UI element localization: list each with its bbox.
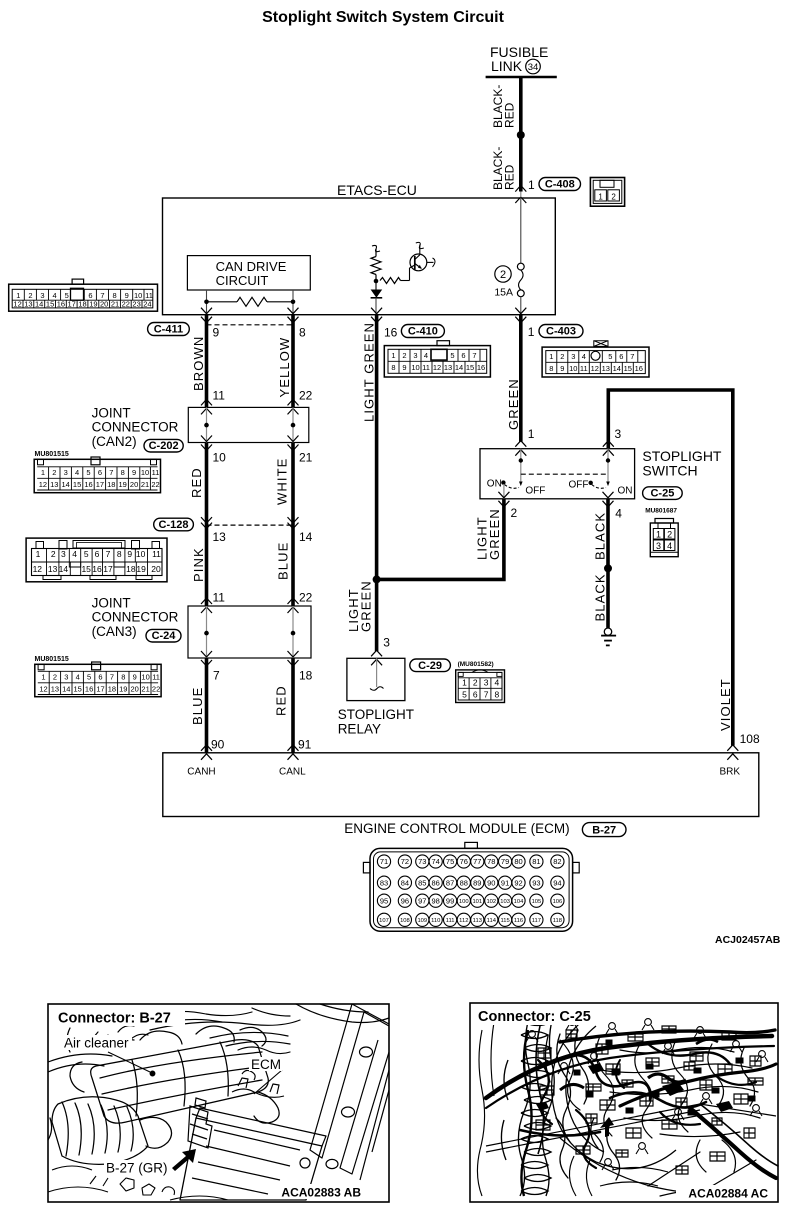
- svg-text:14: 14: [299, 530, 313, 544]
- svg-text:74: 74: [432, 857, 440, 866]
- svg-text:11: 11: [213, 591, 226, 605]
- resistor CAN termination: [207, 297, 294, 306]
- svg-text:111: 111: [446, 918, 455, 924]
- svg-text:4: 4: [75, 468, 79, 477]
- connector label C-29: [410, 659, 451, 672]
- figure number ACA02884 AC: [676, 1185, 775, 1201]
- svg-text:5: 5: [87, 673, 91, 682]
- svg-text:13: 13: [444, 363, 452, 372]
- switch left contact (ON-OFF): [487, 479, 546, 497]
- svg-text:97: 97: [418, 896, 426, 905]
- svg-text:C-410: C-410: [408, 326, 438, 338]
- svg-text:17: 17: [68, 300, 76, 309]
- connector icon C-29 MU801582 (8-pin): [456, 670, 505, 703]
- svg-text:13: 13: [213, 530, 227, 544]
- svg-text:18: 18: [126, 564, 136, 574]
- svg-text:16: 16: [92, 564, 102, 574]
- svg-text:CANH: CANH: [187, 767, 215, 778]
- svg-text:7: 7: [213, 669, 220, 683]
- svg-text:98: 98: [432, 896, 440, 905]
- svg-text:2: 2: [667, 529, 672, 539]
- svg-text:3: 3: [571, 352, 575, 361]
- photo label B-27 (GR): [104, 1160, 168, 1176]
- dashed connector line C-411: [207, 324, 294, 326]
- svg-text:6: 6: [88, 291, 92, 300]
- photo B-27: ECM leader line: [254, 1070, 282, 1094]
- pin diagram C-411 (24-pin): [9, 279, 158, 311]
- connector label C-128: [154, 518, 194, 531]
- wire BLACK from switch pin 4 to ground: [606, 499, 610, 628]
- svg-text:CANL: CANL: [279, 767, 306, 778]
- svg-text:1: 1: [549, 352, 553, 361]
- stoplight switch box: [480, 449, 635, 499]
- connector crossing C-128 pin 13: [201, 517, 226, 544]
- svg-text:Connector: C-25: Connector: C-25: [478, 1009, 591, 1025]
- relay internal wire: [370, 658, 384, 690]
- svg-text:8: 8: [121, 468, 125, 477]
- svg-text:75: 75: [446, 857, 454, 866]
- svg-text:2: 2: [52, 468, 56, 477]
- photo C-25: braided loom column: [501, 1012, 554, 1196]
- svg-text:8: 8: [549, 364, 553, 373]
- svg-text:3: 3: [484, 678, 489, 688]
- photo B-27: air cleaner leader line: [108, 1052, 155, 1076]
- svg-text:103: 103: [500, 899, 510, 905]
- svg-text:6: 6: [98, 673, 102, 682]
- svg-text:1: 1: [16, 291, 20, 300]
- svg-text:8: 8: [495, 690, 500, 700]
- svg-text:BLUE: BLUE: [190, 687, 205, 725]
- switch internal dot right: [606, 458, 610, 462]
- connector crossing C-410 pin 16: [371, 308, 398, 340]
- photo C-25: instrument panel edge: [486, 1104, 776, 1194]
- svg-text:11: 11: [145, 291, 153, 300]
- connector label C-408: [539, 178, 581, 191]
- svg-text:ACJ02457AB: ACJ02457AB: [715, 934, 781, 946]
- svg-text:17: 17: [96, 480, 104, 489]
- stoplight relay label: [338, 707, 414, 737]
- switch internal dot left: [519, 458, 523, 462]
- svg-text:WHITE: WHITE: [275, 458, 290, 505]
- stoplight switch label: [642, 448, 722, 479]
- photo B-27: ECM bracket and bolts: [232, 1070, 284, 1097]
- svg-text:15: 15: [46, 300, 54, 309]
- wire label LIGHT GREEN (switch leg): [475, 508, 503, 560]
- photo C-25: clips and studs: [526, 1019, 768, 1170]
- svg-text:1: 1: [41, 468, 45, 477]
- svg-text:8: 8: [117, 549, 122, 559]
- photo B-27: right rail with holes: [310, 1004, 389, 1180]
- svg-text:C-403: C-403: [546, 326, 576, 338]
- svg-text:BROWN: BROWN: [191, 336, 206, 391]
- svg-text:77: 77: [473, 857, 481, 866]
- svg-text:20: 20: [130, 480, 138, 489]
- svg-text:6: 6: [619, 352, 623, 361]
- svg-text:9: 9: [127, 549, 132, 559]
- svg-text:ON: ON: [487, 479, 502, 490]
- svg-text:1: 1: [528, 178, 535, 192]
- photo C-25: black connector masses: [536, 1063, 733, 1112]
- svg-text:89: 89: [473, 878, 481, 887]
- svg-text:B-27: B-27: [592, 824, 616, 836]
- joint connector CAN3 label: [92, 596, 179, 640]
- svg-text:10: 10: [134, 291, 142, 300]
- svg-text:6: 6: [98, 468, 102, 477]
- relay entry crossing pin 3: [371, 636, 390, 666]
- svg-text:15: 15: [466, 363, 474, 372]
- svg-text:22: 22: [122, 300, 130, 309]
- svg-text:14: 14: [62, 480, 70, 489]
- svg-text:71: 71: [380, 857, 388, 866]
- svg-text:15: 15: [624, 364, 632, 373]
- connector crossing C-128 pin 14: [288, 517, 313, 544]
- photo C-25: top harness bundle thick: [486, 1030, 776, 1136]
- svg-text:8: 8: [121, 673, 125, 682]
- svg-text:7: 7: [484, 690, 489, 700]
- svg-text:72: 72: [401, 857, 409, 866]
- svg-text:13: 13: [48, 564, 58, 574]
- svg-text:7: 7: [110, 673, 114, 682]
- switch entry crossing pin 1: [515, 427, 535, 456]
- svg-text:73: 73: [418, 857, 426, 866]
- svg-text:CONNECTOR: CONNECTOR: [92, 420, 179, 435]
- svg-text:3: 3: [40, 291, 44, 300]
- wire BLUE CAN3 to ECM pin 90: [205, 658, 209, 753]
- svg-text:GREEN: GREEN: [506, 378, 521, 430]
- svg-text:14: 14: [35, 300, 43, 309]
- svg-text:ECM: ECM: [251, 1057, 281, 1072]
- CAN2 internal wire left: [206, 407, 208, 442]
- wire inside ECU left pin8: [292, 290, 294, 315]
- svg-text:5: 5: [608, 352, 612, 361]
- svg-text:C-29: C-29: [418, 660, 442, 672]
- svg-text:7: 7: [109, 468, 113, 477]
- svg-text:14: 14: [455, 363, 463, 372]
- svg-text:2: 2: [560, 352, 564, 361]
- photo frame Connector B-27: [48, 1004, 389, 1202]
- resistor (pull-up) inside ECU: [371, 245, 381, 282]
- pin diagram C-24 MU801515 (22-pin): [35, 662, 161, 697]
- svg-text:B-27 (GR): B-27 (GR): [106, 1161, 168, 1176]
- connector label C-403: [539, 325, 583, 338]
- svg-text:5: 5: [84, 549, 89, 559]
- svg-text:7: 7: [100, 291, 104, 300]
- svg-text:87: 87: [446, 878, 454, 887]
- svg-text:4: 4: [667, 541, 672, 551]
- svg-text:Stoplight Switch System Circui: Stoplight Switch System Circuit: [262, 9, 504, 26]
- transistor Q inside ECU: [410, 242, 436, 270]
- connector label C-410: [401, 325, 444, 338]
- svg-text:18: 18: [108, 685, 116, 694]
- svg-text:8: 8: [113, 291, 117, 300]
- svg-text:GREEN: GREEN: [487, 508, 502, 560]
- svg-text:22: 22: [152, 685, 160, 694]
- CAN2 exit crossing pin 10: [201, 436, 226, 465]
- photo C-25: steering column circle: [552, 1018, 676, 1169]
- svg-text:4: 4: [76, 673, 80, 682]
- svg-text:78: 78: [487, 857, 495, 866]
- photo B-27: cowl and fender lines: [48, 1004, 389, 1072]
- svg-text:2: 2: [53, 673, 57, 682]
- svg-text:4: 4: [582, 352, 586, 361]
- svg-text:C-24: C-24: [152, 630, 177, 642]
- svg-text:102: 102: [486, 899, 496, 905]
- photo C-25: heavy harness squiggles: [538, 1044, 756, 1168]
- svg-text:86: 86: [432, 878, 440, 887]
- svg-text:13: 13: [24, 300, 32, 309]
- wire BLACK-RED vertical from fusible link: [519, 77, 523, 192]
- svg-text:10: 10: [141, 673, 149, 682]
- connector crossing C-411 pin 9: [201, 308, 220, 340]
- svg-text:ON: ON: [618, 486, 633, 497]
- switch internal wire right: [607, 449, 609, 484]
- wire LIGHT GREEN pin16 down: [375, 314, 379, 651]
- svg-text:14: 14: [62, 685, 70, 694]
- photo C-25: lower middle wires: [477, 1022, 668, 1196]
- connector label B-27: [582, 823, 626, 837]
- svg-text:109: 109: [417, 918, 427, 924]
- svg-text:4: 4: [53, 291, 57, 300]
- CAN drive circuit box: [187, 256, 310, 290]
- switch internal wire left: [520, 449, 522, 484]
- svg-text:11: 11: [152, 549, 161, 559]
- svg-text:112: 112: [459, 918, 468, 924]
- photo C-25: lower right heavy bundle: [648, 1104, 778, 1196]
- joint connector CAN2 box: [188, 407, 308, 442]
- svg-text:Air cleaner: Air cleaner: [64, 1036, 129, 1051]
- svg-text:23: 23: [132, 300, 140, 309]
- svg-text:82: 82: [553, 857, 561, 866]
- stoplight relay box: [347, 658, 405, 700]
- svg-text:116: 116: [514, 918, 523, 924]
- resistor base (horizontal): [380, 268, 410, 284]
- svg-text:8: 8: [391, 363, 395, 372]
- photo title Connector: C-25: [471, 1004, 601, 1025]
- svg-text:3: 3: [383, 636, 390, 650]
- CAN2 internal dot right: [291, 423, 296, 428]
- svg-text:11: 11: [580, 364, 588, 373]
- CAN2 entry crossing pin 11: [201, 389, 225, 415]
- svg-text:94: 94: [553, 878, 561, 887]
- CAN3 internal dot right: [291, 631, 296, 636]
- fuse 2 15A inside ECU: [494, 198, 524, 315]
- svg-text:4: 4: [615, 507, 622, 521]
- svg-text:3: 3: [615, 427, 622, 441]
- svg-text:7: 7: [472, 351, 476, 360]
- diode inside ECU: [371, 281, 383, 315]
- svg-text:17: 17: [96, 685, 104, 694]
- svg-text:5: 5: [86, 468, 90, 477]
- svg-text:5: 5: [65, 291, 69, 300]
- svg-text:9: 9: [132, 468, 136, 477]
- svg-text:91: 91: [298, 738, 312, 752]
- svg-text:118: 118: [553, 918, 562, 924]
- svg-text:C-128: C-128: [159, 519, 189, 531]
- svg-text:17: 17: [103, 564, 113, 574]
- photo B-27: corrugated intake duct: [48, 1097, 172, 1165]
- svg-text:96: 96: [401, 896, 409, 905]
- svg-text:3: 3: [413, 351, 417, 360]
- wire inside ECU left pin9: [206, 290, 208, 315]
- svg-text:SWITCH: SWITCH: [642, 463, 697, 479]
- photo B-27: extra hoses top: [88, 1011, 290, 1053]
- svg-text:9: 9: [133, 673, 137, 682]
- svg-text:117: 117: [532, 918, 541, 924]
- photo C-25: dark connector clusters: [574, 1040, 755, 1115]
- svg-text:4: 4: [72, 549, 77, 559]
- svg-text:22: 22: [299, 389, 313, 403]
- CAN2 internal wire right: [292, 407, 294, 442]
- connector crossing C-403 pin 1: [515, 308, 535, 339]
- wire GREEN pin1 down: [519, 314, 523, 442]
- svg-text:19: 19: [119, 480, 127, 489]
- svg-text:12: 12: [13, 300, 21, 309]
- svg-text:3: 3: [61, 549, 66, 559]
- svg-text:15A: 15A: [494, 287, 513, 299]
- svg-text:10: 10: [141, 468, 149, 477]
- svg-text:BLACK: BLACK: [593, 573, 608, 621]
- wire label BLACK-RED upper: [491, 85, 517, 128]
- svg-text:16: 16: [384, 326, 398, 340]
- joint connector CAN3 box: [188, 606, 311, 658]
- svg-text:CIRCUIT: CIRCUIT: [216, 273, 269, 288]
- connector label C-411: [148, 323, 190, 336]
- junction dot on BLACK-RED wire: [517, 131, 525, 139]
- svg-text:YELLOW: YELLOW: [277, 337, 292, 398]
- svg-text:(CAN3): (CAN3): [92, 624, 137, 639]
- svg-text:2: 2: [473, 678, 478, 688]
- svg-text:LINK: LINK: [491, 58, 523, 74]
- svg-text:1: 1: [528, 427, 535, 441]
- connector icon C-408 (2-pin): [590, 178, 624, 207]
- svg-text:10: 10: [411, 363, 419, 372]
- svg-text:C-411: C-411: [154, 324, 183, 336]
- svg-text:4: 4: [424, 351, 428, 360]
- svg-text:RED: RED: [503, 164, 517, 190]
- svg-text:1: 1: [462, 678, 467, 688]
- svg-text:MU801687: MU801687: [645, 508, 677, 515]
- svg-text:15: 15: [73, 480, 81, 489]
- svg-text:ETACS-ECU: ETACS-ECU: [337, 182, 417, 198]
- wire pin9 to CAN2: [205, 314, 209, 407]
- ground symbol: [601, 628, 616, 645]
- svg-text:100: 100: [459, 899, 469, 905]
- svg-text:9: 9: [213, 326, 220, 340]
- photo frame Connector C-25: [470, 1003, 778, 1202]
- svg-text:BLACK: BLACK: [593, 512, 608, 560]
- svg-text:RED: RED: [503, 102, 517, 128]
- svg-text:C-408: C-408: [545, 179, 575, 191]
- svg-text:9: 9: [402, 363, 406, 372]
- svg-text:93: 93: [532, 878, 540, 887]
- svg-text:16: 16: [85, 685, 93, 694]
- svg-text:106: 106: [553, 899, 563, 905]
- svg-text:6: 6: [461, 351, 465, 360]
- figure number ACA02883 AB: [270, 1184, 362, 1200]
- svg-text:76: 76: [460, 857, 468, 866]
- svg-text:107: 107: [379, 918, 389, 924]
- connector label C-202: [144, 439, 183, 452]
- svg-text:(CAN2): (CAN2): [92, 434, 137, 449]
- connector label C-24: [146, 629, 181, 642]
- ECM box: [163, 753, 759, 817]
- svg-text:20: 20: [131, 685, 139, 694]
- svg-text:9: 9: [125, 291, 129, 300]
- photo C-25: mid-left wire cluster: [545, 1030, 619, 1180]
- svg-text:MU801515: MU801515: [35, 451, 69, 458]
- svg-text:16: 16: [84, 480, 92, 489]
- svg-text:113: 113: [473, 918, 482, 924]
- CAN3 internal wire left: [206, 606, 208, 658]
- switch entry crossing pin 3: [603, 427, 622, 456]
- svg-text:20: 20: [100, 300, 108, 309]
- svg-text:108: 108: [740, 732, 760, 746]
- svg-text:OFF: OFF: [569, 480, 589, 491]
- photo B-27: misc small parts bottom: [48, 1166, 228, 1200]
- CAN2 internal dot left: [204, 423, 209, 428]
- junction dot black wire: [604, 564, 612, 572]
- svg-text:3: 3: [64, 468, 68, 477]
- svg-text:12: 12: [33, 564, 43, 574]
- svg-text:15: 15: [81, 564, 91, 574]
- svg-text:2: 2: [402, 351, 406, 360]
- svg-text:84: 84: [401, 878, 409, 887]
- svg-text:16: 16: [635, 364, 643, 373]
- svg-text:18: 18: [78, 300, 86, 309]
- svg-text:21: 21: [299, 451, 313, 465]
- wire pin8 to CAN2: [291, 314, 295, 407]
- svg-text:7: 7: [630, 352, 634, 361]
- svg-text:7: 7: [106, 549, 111, 559]
- svg-text:18: 18: [107, 480, 115, 489]
- svg-text:PINK: PINK: [191, 547, 206, 582]
- switch exit crossing pin 4: [603, 492, 623, 521]
- connector crossing C-411 pin 8: [288, 308, 307, 340]
- ETACS-ECU box: [163, 182, 556, 315]
- svg-text:80: 80: [514, 857, 522, 866]
- svg-text:92: 92: [514, 878, 522, 887]
- svg-text:85: 85: [418, 878, 426, 887]
- wire RED CAN2 to C-128: [205, 443, 209, 607]
- svg-text:18: 18: [299, 669, 313, 683]
- svg-text:1: 1: [656, 529, 661, 539]
- svg-text:9: 9: [560, 364, 564, 373]
- svg-text:(MU801582): (MU801582): [458, 661, 494, 668]
- svg-text:21: 21: [141, 685, 149, 694]
- svg-text:13: 13: [50, 480, 58, 489]
- svg-text:15: 15: [74, 685, 82, 694]
- svg-text:13: 13: [51, 685, 59, 694]
- svg-text:114: 114: [487, 918, 497, 924]
- ECM connector drawing B-27: [363, 842, 579, 931]
- svg-text:1: 1: [391, 351, 395, 360]
- photo C-25: connector blocks: [536, 1026, 763, 1174]
- svg-text:GREEN: GREEN: [359, 580, 374, 632]
- photo title Connector: B-27: [50, 1006, 185, 1027]
- svg-text:13: 13: [602, 364, 610, 373]
- svg-text:91: 91: [501, 878, 509, 887]
- svg-text:1: 1: [41, 673, 45, 682]
- svg-text:2: 2: [28, 291, 32, 300]
- svg-text:LIGHT GREEN: LIGHT GREEN: [361, 322, 376, 422]
- svg-text:99: 99: [446, 896, 454, 905]
- svg-text:JOINT: JOINT: [92, 406, 131, 421]
- CAN2 exit crossing pin 21: [288, 436, 313, 465]
- svg-text:11: 11: [152, 468, 160, 477]
- svg-text:34: 34: [528, 62, 539, 73]
- junction dot light green: [373, 575, 381, 583]
- svg-text:22: 22: [299, 591, 313, 605]
